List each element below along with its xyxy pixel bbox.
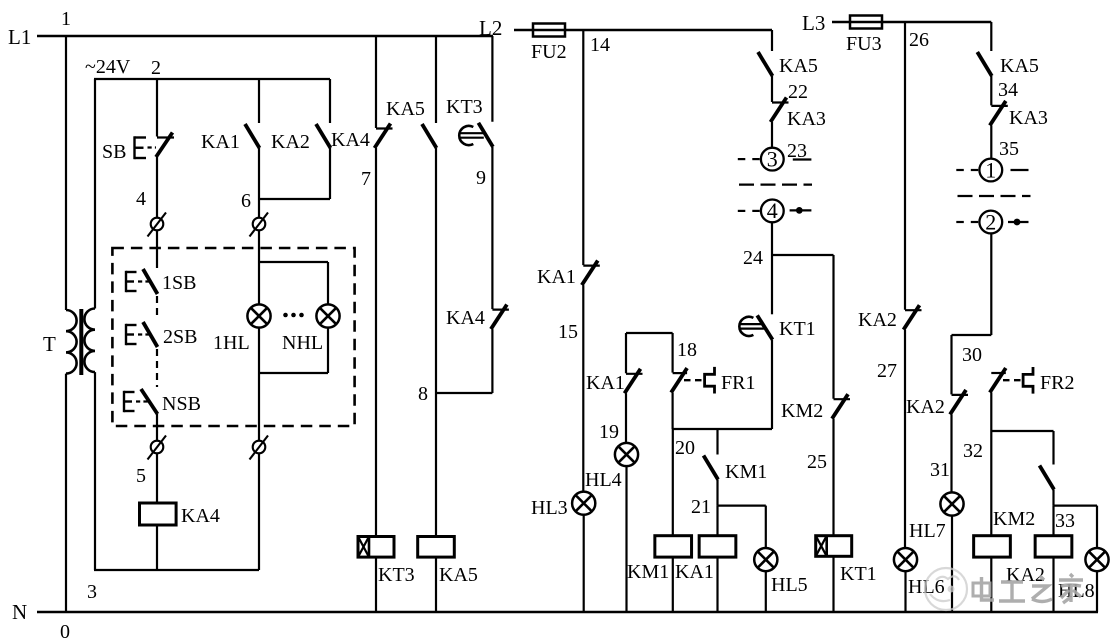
svg-text:~24V: ~24V (85, 56, 131, 78)
wire transformer secondary to 24V rail (94, 79, 96, 309)
wire KA5 contact through node 8 to KA5 coil (435, 148, 437, 537)
svg-text:35: 35 (999, 138, 1019, 160)
wire SB to connector (156, 157, 158, 218)
svg-text:30: 30 (962, 344, 982, 366)
wire L2 to KA5 contact (771, 30, 773, 51)
svg-text:KA1: KA1 (675, 561, 714, 583)
wire KM1 contact to node 21 (716, 480, 718, 506)
contact KA5 (NO) on L2 (758, 52, 773, 76)
svg-text:1HL: 1HL (213, 332, 250, 354)
contact KA4 (NC) on node 9 (492, 309, 509, 311)
svg-text:26: 26 (909, 29, 929, 51)
svg-text:25: 25 (807, 451, 827, 473)
cam switch separator right (958, 195, 1031, 197)
svg-text:3: 3 (767, 146, 778, 171)
wire L3 node-26 column (904, 22, 906, 310)
cam switch position contact 4 (761, 200, 784, 223)
wire 1HL to bottom bracket (258, 328, 260, 374)
wire KA4 coil to node-3 rail (156, 525, 158, 570)
svg-text:0: 0 (60, 621, 70, 641)
thermal contact FR1 (673, 372, 688, 374)
svg-text:HL5: HL5 (771, 574, 808, 596)
cam switch position contact 1 (979, 159, 1002, 182)
wire node-30 bracket (952, 334, 992, 336)
wire lamp top bracket (259, 261, 328, 263)
contact KA1 (NC) on node 18 (626, 373, 643, 375)
svg-text:7: 7 (361, 168, 371, 190)
relay coil KA5 (418, 537, 455, 558)
wire node-8 link (436, 392, 492, 394)
wire node 32 to KM2 contact (1052, 431, 1054, 465)
svg-text:4: 4 (136, 188, 146, 210)
dashed enclosure box (112, 248, 354, 426)
svg-text:KA4: KA4 (331, 129, 370, 151)
wire KM2 coil to N rail (990, 557, 992, 612)
wire node 24 to KT1 contact (771, 255, 773, 314)
wire connector to 1SB (156, 230, 158, 268)
contact KM2 (NO) (1040, 466, 1055, 490)
svg-text:T: T (43, 332, 56, 356)
wire KA4 contact to node 8 (491, 329, 493, 393)
transformer T secondary winding (84, 309, 95, 373)
svg-text:22: 22 (788, 81, 808, 103)
svg-text:6: 6 (241, 190, 251, 212)
svg-text:FR1: FR1 (721, 372, 755, 394)
svg-text:KA3: KA3 (787, 108, 826, 130)
wire 24V sub-rail (94, 78, 330, 80)
svg-text:8: 8 (418, 383, 428, 405)
wire KA1 contact to node 6 (258, 148, 260, 218)
wire KA5 coil to N rail (435, 557, 437, 612)
wire node-20 junction rail (673, 428, 772, 430)
contact KA3 (NC) (772, 101, 789, 103)
wire HL8 to N rail (1096, 571, 1098, 612)
wire KA1 contact to HL4 lamp (625, 393, 627, 443)
fuse FU3 (850, 16, 882, 29)
wire cam contact 4 to node 24 (771, 222, 773, 255)
wire node-32 junction rail (991, 430, 1053, 432)
watermark text dian-gong-zhi-jia (973, 574, 1083, 603)
wire node 20 to KM1 contact (716, 429, 718, 455)
wire KA3 to cam contact 1 (990, 125, 992, 158)
contact KT3 (delayed closing) (459, 126, 473, 145)
svg-text:1SB: 1SB (162, 272, 196, 294)
svg-text:31: 31 (930, 459, 950, 481)
contact KA1 (NO) (245, 124, 260, 148)
cam switch position contact 3 (761, 148, 784, 171)
contact KA1 (NC) on node 14 (583, 265, 600, 267)
wire connector to KA4 coil (156, 453, 158, 503)
wire KA2 contact to node 6 (329, 148, 331, 199)
svg-text:27: 27 (877, 360, 897, 382)
wire 24V rail to KA1 contact (258, 79, 260, 123)
wire bracket to KA2 contact (950, 335, 952, 394)
contact KM1 (NO) (704, 456, 719, 480)
contact KT1 (delayed closing) (739, 317, 753, 336)
svg-text:32: 32 (963, 440, 983, 462)
svg-text:HL3: HL3 (531, 497, 568, 519)
wire L3 to KA5 contact (990, 22, 992, 51)
wire KT1 contact to node 20 (771, 340, 773, 429)
svg-text:SB: SB (102, 141, 126, 163)
pushbutton 1SB (NO) (143, 269, 158, 294)
connector plug below lamp box (253, 441, 266, 454)
wire cam contact 2 to node 30 (990, 233, 992, 335)
relay coil KA2 (1035, 536, 1072, 557)
wire 24V rail to KA2 contact (329, 79, 331, 123)
thermal contact FR2 (991, 372, 1006, 374)
contactor coil KM1 (655, 536, 692, 557)
wire transformer secondary to node-3 rail (94, 372, 96, 570)
wire node-1 column from L1 to transformer primary (65, 36, 67, 310)
pushbutton 2SB (NO) (143, 322, 158, 347)
wire bracket to KA1 contact (625, 333, 627, 373)
wire L2 rail (514, 29, 772, 32)
wire bracket to FR1 contact (671, 333, 673, 373)
ellipsis dots between lamps (283, 313, 288, 318)
svg-text:4: 4 (767, 198, 778, 223)
lamp HL8 (1085, 548, 1108, 571)
wire node-18 bracket (626, 332, 673, 334)
wire KA3 to cam contact 3 (771, 122, 773, 148)
svg-text:18: 18 (677, 339, 697, 361)
svg-text:KA5: KA5 (779, 55, 818, 77)
wire NHL to bottom bracket (327, 328, 329, 374)
contact KA5 (NO) on L3 (977, 52, 992, 76)
lamp HL4 (615, 443, 638, 466)
svg-text:KA5: KA5 (439, 564, 478, 586)
wire KM2 contact to node 33 (1052, 490, 1054, 506)
wire KT1 coil to N rail (832, 556, 834, 612)
wire node-33 link to HL8 (1054, 505, 1098, 507)
wire HL3 to N rail (583, 515, 585, 612)
svg-text:15: 15 (558, 321, 578, 343)
svg-text:KT1: KT1 (840, 563, 877, 585)
lamp HL5 (754, 548, 777, 571)
svg-text:KA1: KA1 (586, 372, 625, 394)
svg-text:KA3: KA3 (1009, 107, 1048, 129)
svg-text:L1: L1 (8, 25, 31, 49)
wire KM2 contact to KT1 coil (832, 419, 834, 536)
wire 24V rail to SB (156, 79, 158, 137)
wire KT3 coil to N rail (375, 557, 377, 612)
lamp HL7 (940, 492, 963, 515)
lamp NHL (316, 304, 339, 327)
svg-text:NHL: NHL (282, 332, 323, 354)
wire 2SB to NSB dashed (156, 349, 158, 387)
wire lamp column to connector (258, 373, 260, 441)
svg-text:FU2: FU2 (531, 41, 567, 63)
svg-text:1: 1 (61, 8, 71, 30)
wire 1SB to 2SB dashed (156, 296, 158, 320)
svg-text:KM1: KM1 (725, 461, 767, 483)
relay coil KA4 (140, 503, 177, 525)
wire FR1 to node 20 (671, 393, 673, 429)
wire L1 to KT3 contact (491, 36, 493, 122)
svg-text:L2: L2 (479, 16, 502, 40)
svg-text:1: 1 (985, 157, 996, 182)
contact KA3 (NC) on node 34 (991, 105, 1008, 107)
svg-text:KA4: KA4 (181, 505, 220, 527)
svg-text:KT1: KT1 (779, 318, 816, 340)
svg-text:20: 20 (675, 437, 695, 459)
contact KA2 (NC) on node 30 (952, 394, 969, 396)
wire NSB to connector node 5 (156, 414, 158, 441)
contact KM2 (NC) (834, 398, 851, 400)
svg-text:14: 14 (590, 34, 610, 56)
svg-text:NSB: NSB (162, 393, 201, 415)
cam switch separator (739, 183, 812, 185)
wire connector into lamp box (258, 230, 260, 262)
wire KT3 contact to KA4 contact (491, 147, 493, 309)
svg-text:KA5: KA5 (1000, 55, 1039, 77)
wire N bottom rail (37, 611, 1098, 614)
svg-text:KM2: KM2 (781, 400, 823, 422)
lamp HL3 (572, 492, 595, 515)
wire L3 rail (832, 21, 991, 24)
svg-text:9: 9 (476, 167, 486, 189)
wire to NHL lamp (327, 262, 329, 305)
svg-text:KA4: KA4 (446, 307, 485, 329)
connector plug at node 4 (151, 218, 164, 231)
wire L1 to KA5 contact (435, 36, 437, 123)
svg-text:2: 2 (151, 57, 161, 79)
contact KA2 (NO) (316, 124, 331, 148)
wire to 1HL lamp (258, 262, 260, 305)
wire transformer primary to N rail (65, 374, 67, 612)
svg-text:KM2: KM2 (993, 508, 1035, 530)
cam switch position contact 2 (979, 211, 1002, 234)
wire node 21 to KA1 coil (716, 506, 718, 536)
wire lamp bottom bracket (259, 372, 328, 374)
svg-text:2: 2 (985, 209, 996, 234)
transformer T primary winding (66, 310, 77, 374)
wire KA5 to KA3 contact (990, 76, 992, 105)
svg-text:N: N (12, 600, 27, 624)
svg-text:3: 3 (87, 581, 97, 603)
contactor coil KM2 (974, 536, 1011, 557)
wire node-3 rail (94, 569, 259, 571)
svg-text:HL7: HL7 (909, 520, 946, 542)
lamp 1HL (247, 304, 270, 327)
svg-text:KA2: KA2 (858, 309, 897, 331)
wire node 21 to HL5 lamp (765, 506, 767, 548)
svg-text:KT3: KT3 (378, 564, 415, 586)
wire KA5 to KA3 contact (771, 76, 773, 102)
wire KA2 contact to HL7 lamp (950, 414, 952, 492)
wire node 24 to KM2 contact (832, 255, 834, 399)
svg-text:KA2: KA2 (271, 131, 310, 153)
wire node-21 link to HL5 (718, 505, 766, 507)
transformer T core (79, 309, 83, 375)
wire node 33 to KA2 coil (1052, 506, 1054, 536)
svg-text:KT3: KT3 (446, 96, 483, 118)
svg-text:KA2: KA2 (906, 396, 945, 418)
wire HL6 to N rail (904, 571, 906, 612)
svg-text:24: 24 (743, 247, 763, 269)
fuse FU2 (533, 24, 565, 37)
svg-text:19: 19 (599, 421, 619, 443)
wire L1 top rail (37, 35, 493, 38)
svg-text:KA1: KA1 (201, 131, 240, 153)
contact KA2 (NC) on node 26 (905, 309, 922, 311)
watermark logo (925, 568, 967, 610)
wire L1 to KA4 contact (375, 36, 377, 128)
wire node-24 link to KM2 branch (772, 254, 834, 256)
svg-text:21: 21 (691, 496, 711, 518)
svg-text:5: 5 (136, 465, 146, 487)
svg-text:KA1: KA1 (537, 266, 576, 288)
wire KM1 coil to N rail (672, 557, 674, 612)
wire HL5 to N rail (765, 571, 767, 612)
timer coil KT1 (816, 536, 852, 557)
wire L2 node-14 column (582, 30, 584, 265)
contact KA5 (NO) (422, 124, 437, 148)
wire HL4 to N rail (625, 466, 627, 612)
relay coil KA1 (699, 536, 736, 557)
wire KA2 coil to N rail (1052, 557, 1054, 612)
svg-text:2SB: 2SB (163, 326, 197, 348)
svg-text:HL4: HL4 (585, 469, 622, 491)
lamp HL6 (894, 548, 917, 571)
wire node 15 to HL3 lamp (582, 285, 584, 492)
wire KA4 contact to KT3 coil (375, 148, 377, 537)
wire HL7 to N rail (951, 516, 953, 612)
wire FR2 to node 32 (990, 393, 992, 432)
connector plug on lamp column (253, 218, 266, 231)
svg-text:KM1: KM1 (627, 561, 669, 583)
wire node 33 to HL8 lamp (1096, 506, 1098, 548)
svg-text:33: 33 (1055, 510, 1075, 532)
wire connector to node-3 rail (258, 453, 260, 570)
wire node 27 to HL6 lamp (904, 330, 906, 548)
pushbutton SB (NC) (157, 136, 174, 138)
timer coil KT3 (358, 537, 394, 558)
svg-text:FU3: FU3 (846, 33, 882, 55)
wire KA1 coil to N rail (716, 557, 718, 612)
wire node-6 link to KA2 branch (259, 198, 330, 200)
svg-text:FR2: FR2 (1040, 372, 1074, 394)
svg-text:KA5: KA5 (386, 98, 425, 120)
pushbutton NSB (NO) (141, 389, 158, 414)
svg-text:34: 34 (998, 79, 1018, 101)
wire node 32 to KM2 coil (990, 431, 992, 536)
connector plug at node 5 (151, 441, 164, 454)
svg-text:L3: L3 (802, 11, 825, 35)
contact KA4 (NC) (376, 127, 393, 129)
wire node 20 to KM1 coil (672, 429, 674, 536)
